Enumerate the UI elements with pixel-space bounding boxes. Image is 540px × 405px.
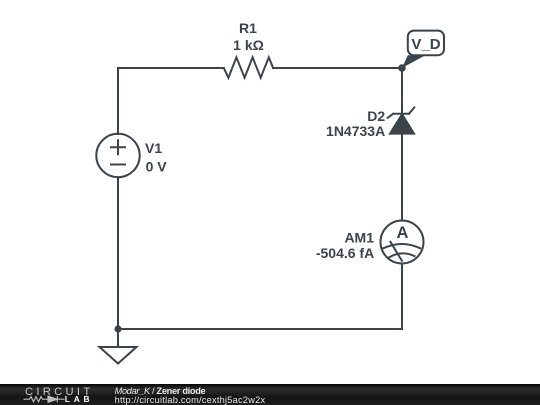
node junction dot ground net xyxy=(114,325,121,332)
wire ground stub xyxy=(117,329,119,347)
logo circuit squiggle xyxy=(24,396,65,402)
svg-text:LAB: LAB xyxy=(65,394,94,404)
voltage source V1 xyxy=(96,134,139,177)
svg-text:1N4733A: 1N4733A xyxy=(326,123,385,139)
svg-text:AM1: AM1 xyxy=(344,229,374,245)
svg-text:V_D: V_D xyxy=(411,36,440,53)
svg-text:-504.6 fA: -504.6 fA xyxy=(316,245,374,261)
wire zener anode to ammeter top xyxy=(401,134,403,221)
node junction dot V_D xyxy=(398,64,406,72)
svg-text:0 V: 0 V xyxy=(146,159,168,175)
zener diode D2 xyxy=(388,107,415,133)
wire R1 right to node V_D xyxy=(273,67,402,69)
svg-text:A: A xyxy=(396,224,408,242)
wire V1 bottom to ground node xyxy=(117,177,119,329)
net flag V_D xyxy=(402,31,444,68)
wire top-left: V1 top to R1 left xyxy=(118,68,224,134)
footer bar xyxy=(0,384,540,405)
ammeter AM1 xyxy=(381,221,424,264)
resistor R1 xyxy=(224,57,273,77)
svg-text:D2: D2 xyxy=(367,108,385,124)
ground xyxy=(100,347,137,364)
svg-text:R1: R1 xyxy=(239,20,257,36)
wire ammeter bottom to ground node xyxy=(118,264,402,330)
svg-text:1 kΩ: 1 kΩ xyxy=(233,37,264,53)
svg-text:V1: V1 xyxy=(145,140,162,156)
footer attribution text xyxy=(115,387,266,405)
wire node to zener cathode xyxy=(401,68,403,114)
